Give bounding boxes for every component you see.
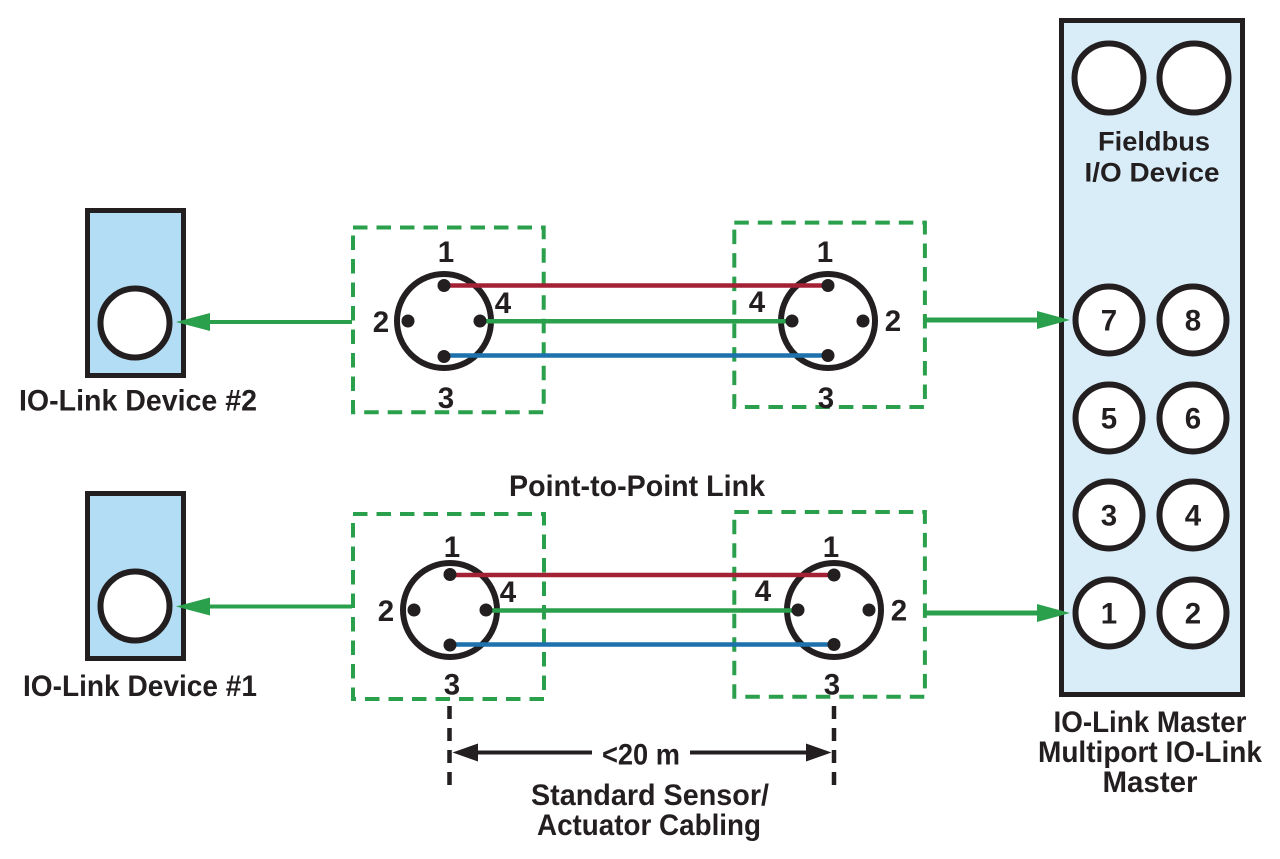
dashed connector zone box top-left xyxy=(353,228,544,413)
dimension arrow left xyxy=(476,751,592,755)
top-right connector pin 3 xyxy=(822,349,835,362)
port 7 xyxy=(1076,287,1143,354)
green arrow to master port 1 xyxy=(925,611,1040,616)
svg-text:Actuator Cabling: Actuator Cabling xyxy=(537,809,761,842)
svg-text:1: 1 xyxy=(438,236,454,269)
bottom-left connector pin 3 xyxy=(444,639,457,652)
green arrow to device #1 xyxy=(206,605,352,609)
wire green bottom (pin4-pin4) xyxy=(486,608,798,613)
dashed connector zone box bottom-left xyxy=(353,514,544,699)
svg-text:3: 3 xyxy=(1101,500,1117,533)
wire blue top (pin3-pin3) xyxy=(444,353,828,358)
port 6 xyxy=(1160,385,1227,452)
wire red bottom (pin1-pin1) xyxy=(450,573,834,578)
IO-Link device #1 port circle xyxy=(101,572,170,641)
svg-text:IO-Link Master: IO-Link Master xyxy=(1054,706,1247,739)
svg-text:3: 3 xyxy=(824,669,840,702)
M12 connector bottom-right body xyxy=(787,563,881,657)
svg-text:1: 1 xyxy=(444,531,460,564)
top-right connector pin 4 xyxy=(786,315,799,328)
wire green top (pin4-pin4) xyxy=(480,319,792,324)
top-left connector pin 4 xyxy=(474,315,487,328)
bottom-right connector pin 2 xyxy=(863,604,876,617)
top-left connector pin 1 xyxy=(438,279,451,292)
top-left connector pin 3 xyxy=(438,350,451,363)
svg-text:5: 5 xyxy=(1101,403,1117,436)
svg-text:4: 4 xyxy=(500,576,517,609)
port 5 xyxy=(1076,385,1143,452)
dimension arrow right xyxy=(690,751,808,755)
svg-text:2: 2 xyxy=(373,306,389,339)
master top-right port circle xyxy=(1160,44,1229,113)
svg-text:4: 4 xyxy=(495,287,512,320)
svg-text:4: 4 xyxy=(1185,500,1202,533)
svg-text:7: 7 xyxy=(1101,305,1117,338)
wire blue bottom (pin3-pin3) xyxy=(450,642,834,647)
black dashed extent line right xyxy=(832,706,837,788)
master top-left port circle xyxy=(1075,44,1144,113)
M12 connector bottom-left body xyxy=(403,563,497,657)
bottom-right connector pin 1 xyxy=(828,569,841,582)
bottom-left connector pin 2 xyxy=(408,604,421,617)
svg-text:Master: Master xyxy=(1102,766,1198,799)
M12 connector top-left body xyxy=(397,274,491,368)
port 1 xyxy=(1076,580,1143,647)
port 3 xyxy=(1076,482,1143,549)
svg-text:2: 2 xyxy=(891,595,907,628)
svg-text:I/O Device: I/O Device xyxy=(1085,158,1220,188)
green arrow to master port 7 xyxy=(925,318,1040,323)
IO-Link device #2 box xyxy=(88,211,184,376)
svg-text:3: 3 xyxy=(818,382,834,415)
green arrow to device #2 xyxy=(206,320,352,324)
svg-text:3: 3 xyxy=(438,382,454,415)
svg-text:Fieldbus: Fieldbus xyxy=(1098,127,1210,157)
IO-Link device #1 box xyxy=(88,494,184,659)
svg-text:2: 2 xyxy=(1185,598,1201,631)
svg-text:8: 8 xyxy=(1185,305,1201,338)
svg-text:6: 6 xyxy=(1185,403,1201,436)
svg-text:3: 3 xyxy=(444,669,460,702)
svg-text:Standard Sensor/: Standard Sensor/ xyxy=(531,779,769,812)
svg-text:IO-Link Device #1: IO-Link Device #1 xyxy=(23,670,257,703)
port 2 xyxy=(1160,580,1227,647)
svg-text:<20 m: <20 m xyxy=(602,739,680,772)
IO-Link device #2 port circle xyxy=(101,289,170,358)
svg-text:4: 4 xyxy=(749,286,766,319)
svg-text:2: 2 xyxy=(378,595,394,628)
fieldbus I/O device / IO-Link master box xyxy=(1062,21,1243,695)
svg-text:4: 4 xyxy=(755,575,772,608)
top-right connector pin 2 xyxy=(857,315,870,328)
bottom-left connector pin 4 xyxy=(480,604,493,617)
M12 connector top-right body xyxy=(781,274,875,368)
dashed connector zone box top-right xyxy=(734,223,925,407)
top-right connector pin 1 xyxy=(822,279,835,292)
bottom-right connector pin 3 xyxy=(828,638,841,651)
black dashed extent line left xyxy=(447,706,452,788)
port 4 xyxy=(1160,482,1227,549)
port 8 xyxy=(1160,287,1227,354)
dashed connector zone box bottom-right xyxy=(734,512,925,697)
svg-text:2: 2 xyxy=(885,305,901,338)
bottom-right connector pin 4 xyxy=(792,604,805,617)
svg-text:1: 1 xyxy=(817,236,833,269)
svg-text:Multiport IO-Link: Multiport IO-Link xyxy=(1038,736,1263,769)
top-left connector pin 2 xyxy=(402,315,415,328)
svg-text:IO-Link Device #2: IO-Link Device #2 xyxy=(19,385,257,418)
svg-text:Point-to-Point Link: Point-to-Point Link xyxy=(509,470,766,503)
bottom-left connector pin 1 xyxy=(444,568,457,581)
svg-text:1: 1 xyxy=(823,531,839,564)
wire red top (pin1-pin1) xyxy=(444,283,828,288)
svg-text:1: 1 xyxy=(1101,598,1117,631)
